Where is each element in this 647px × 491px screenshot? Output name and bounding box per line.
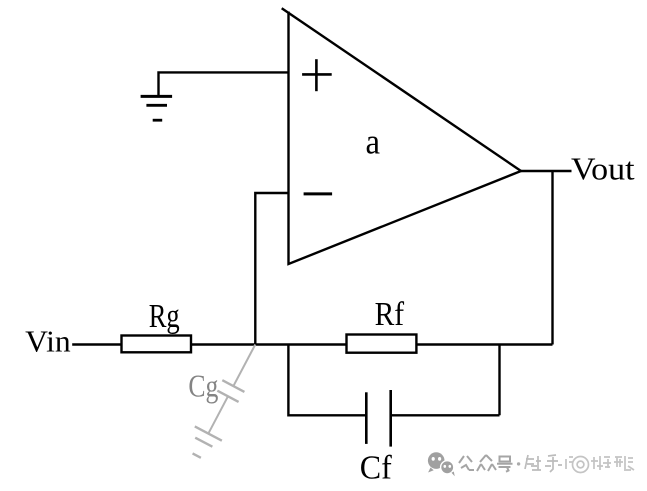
svg-text:Rf: Rf: [375, 296, 405, 333]
resistor Rg: [122, 336, 192, 353]
feedback vertical wire: [551, 171, 553, 345]
op-amp plus input symbol: [302, 59, 332, 91]
resistor Rf: [347, 335, 417, 353]
wire from ground to + input: [159, 72, 289, 96]
dot: [517, 462, 520, 465]
wire Cf right to feedback: [391, 414, 500, 416]
wire Rf to feedback node: [416, 343, 552, 345]
svg-text:Cf: Cf: [360, 450, 393, 487]
wire Vin to Rg: [72, 343, 121, 345]
op-amp U1 triangle: [282, 8, 521, 264]
svg-text:Rg: Rg: [149, 298, 180, 335]
capacitor Cg plates: [222, 380, 244, 392]
capacitor Cg branch (gray, rotated): [183, 337, 269, 462]
wire up to Rf output: [498, 345, 500, 416]
众: [477, 455, 496, 471]
watermark text 知乎@如颖 (light, doubled): [525, 455, 634, 473]
wire op-amp output to Vout: [521, 170, 572, 172]
wire node A down to Cf left: [288, 345, 366, 416]
watermark text 公众号: [459, 455, 520, 472]
wire Cg to gray ground: [208, 396, 228, 433]
watermark wechat icon: [428, 452, 455, 476]
ground: [141, 96, 173, 120]
公: [459, 456, 474, 470]
号: [497, 457, 513, 472]
gray ground: [195, 426, 222, 440]
svg-text:a: a: [366, 122, 381, 162]
svg-text:Vin: Vin: [25, 323, 71, 358]
wire node A to Cg: [233, 345, 255, 387]
op-amp minus input symbol: [304, 192, 333, 195]
wire from - input down to node A: [255, 193, 288, 345]
wire Rg to Rf through node A: [191, 343, 347, 345]
svg-text:Vout: Vout: [571, 151, 635, 187]
capacitor Cf: [366, 390, 390, 447]
svg-text:Cg: Cg: [188, 368, 218, 404]
